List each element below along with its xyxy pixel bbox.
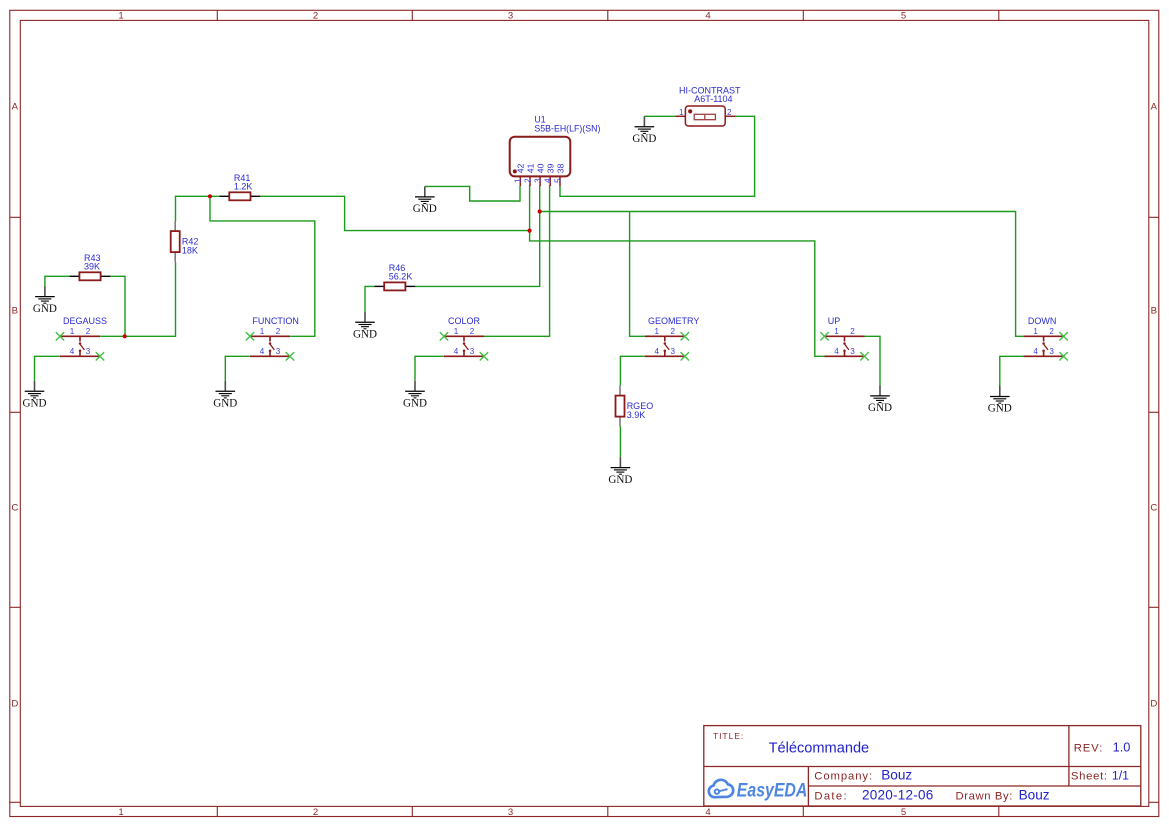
svg-text:1: 1 xyxy=(834,327,839,336)
svg-text:2: 2 xyxy=(276,327,281,336)
ground GND (U1 pin1) xyxy=(413,186,437,215)
svg-text:4: 4 xyxy=(1033,347,1038,356)
wire U1 pin2 to UP pin4 xyxy=(530,186,825,356)
ground GND (DEGAUSS) xyxy=(22,381,46,410)
svg-text:A: A xyxy=(1151,101,1158,112)
svg-text:GND: GND xyxy=(403,398,427,410)
junction U1 pin3 branch xyxy=(538,209,542,213)
svg-text:18K: 18K xyxy=(182,246,198,256)
svg-text:1: 1 xyxy=(260,327,265,336)
svg-text:EasyEDA: EasyEDA xyxy=(737,780,808,802)
svg-text:2: 2 xyxy=(313,11,318,22)
wire FUNCTION pin4 to GND xyxy=(225,356,250,381)
switch DOWN xyxy=(1024,332,1068,360)
svg-text:1: 1 xyxy=(454,327,459,336)
wire UP pin2 to GND xyxy=(864,336,880,385)
svg-text:Company:: Company: xyxy=(814,771,873,783)
svg-text:4: 4 xyxy=(260,347,265,356)
title block xyxy=(704,726,1141,806)
svg-text:2: 2 xyxy=(86,327,91,336)
svg-text:4: 4 xyxy=(834,347,839,356)
svg-text:1: 1 xyxy=(70,327,75,336)
wire branch to GEOMETRY pin1 xyxy=(630,212,645,337)
ground GND (HI-CONTRAST) xyxy=(632,116,656,145)
svg-text:2: 2 xyxy=(313,807,318,818)
resistor RGEO 3.9K xyxy=(616,386,625,427)
svg-text:GND: GND xyxy=(608,474,632,486)
svg-text:B: B xyxy=(12,305,18,316)
svg-text:Bouz: Bouz xyxy=(881,768,912,783)
svg-text:2: 2 xyxy=(470,327,475,336)
svg-text:UP: UP xyxy=(828,316,841,326)
junction node R41 left xyxy=(208,194,212,198)
ground GND (COLOR) xyxy=(403,381,427,410)
svg-text:GND: GND xyxy=(632,133,656,145)
wire U1 pin1 to GND xyxy=(425,186,520,201)
svg-text:39: 39 xyxy=(546,163,556,173)
svg-text:GND: GND xyxy=(868,402,892,414)
svg-text:3: 3 xyxy=(508,11,513,22)
svg-text:Drawn By:: Drawn By: xyxy=(956,791,1014,803)
ground GND (DOWN) xyxy=(988,386,1012,415)
U1 pin numbers 1-5 xyxy=(514,178,563,183)
svg-text:A6T-1104: A6T-1104 xyxy=(694,94,732,104)
svg-text:3: 3 xyxy=(508,807,513,818)
ground GND (UP) xyxy=(868,385,892,414)
svg-text:D: D xyxy=(1150,698,1157,709)
svg-text:5: 5 xyxy=(901,11,906,22)
wire DOWN pin4 to GND xyxy=(1000,356,1024,386)
switch COLOR xyxy=(440,332,488,360)
svg-text:COLOR: COLOR xyxy=(448,316,481,326)
ground GND (R46) xyxy=(353,312,377,341)
svg-text:4: 4 xyxy=(544,178,553,183)
svg-text:1: 1 xyxy=(1033,327,1038,336)
svg-text:2: 2 xyxy=(850,327,855,336)
svg-text:FUNCTION: FUNCTION xyxy=(252,316,299,326)
wire R41 right to U1 pin2 node xyxy=(260,196,530,230)
wire DEGAUSS pin4 to GND xyxy=(35,356,60,381)
svg-text:3: 3 xyxy=(470,347,475,356)
wire R43 right to DEGAUSS node xyxy=(110,276,125,336)
switch GEOMETRY xyxy=(645,332,689,360)
svg-text:42: 42 xyxy=(516,163,526,173)
svg-text:3: 3 xyxy=(1049,347,1054,356)
wire GEOMETRY pin4 to RGEO xyxy=(620,356,644,385)
svg-text:4: 4 xyxy=(70,347,75,356)
svg-text:5: 5 xyxy=(901,807,906,818)
switch U? HI-CONTRAST A6T-1104 xyxy=(675,106,736,126)
svg-text:REV:: REV: xyxy=(1074,742,1104,754)
svg-text:5: 5 xyxy=(553,178,562,183)
wire DEGAUSS pin2 to R42 bottom xyxy=(100,262,175,336)
svg-text:TITLE:: TITLE: xyxy=(713,731,744,741)
wire U1 pin4 to COLOR pin2 xyxy=(484,186,550,336)
svg-text:40: 40 xyxy=(536,163,546,173)
resistor R43 39K xyxy=(70,272,111,280)
EasyEDA logo xyxy=(709,780,733,797)
connector U1 S5B-EH(LF)(SN) xyxy=(510,137,571,186)
ground GND (FUNCTION) xyxy=(213,381,237,410)
svg-text:1: 1 xyxy=(679,108,684,117)
svg-text:GND: GND xyxy=(33,303,57,315)
svg-text:56.2K: 56.2K xyxy=(389,271,413,281)
svg-text:GND: GND xyxy=(22,398,46,410)
wire R46 left to GND xyxy=(365,286,375,311)
ground GND (RGEO) xyxy=(608,457,632,486)
svg-text:1: 1 xyxy=(514,178,523,183)
svg-text:C: C xyxy=(1150,502,1157,513)
svg-text:S5B-EH(LF)(SN): S5B-EH(LF)(SN) xyxy=(534,124,600,134)
svg-text:Date:: Date: xyxy=(814,791,848,803)
svg-text:Bouz: Bouz xyxy=(1019,788,1050,803)
svg-text:3: 3 xyxy=(850,347,855,356)
wire U1 pin5 to HI-CONTRAST pin2 xyxy=(560,116,755,196)
svg-text:2: 2 xyxy=(523,178,532,183)
svg-text:3: 3 xyxy=(671,347,676,356)
svg-text:3: 3 xyxy=(276,347,281,356)
svg-text:GEOMETRY: GEOMETRY xyxy=(648,316,699,326)
svg-text:DEGAUSS: DEGAUSS xyxy=(63,316,107,326)
switch FUNCTION xyxy=(246,332,294,360)
svg-text:1/1: 1/1 xyxy=(1112,769,1129,783)
svg-text:41: 41 xyxy=(525,163,535,173)
wire HI-CONTRAST pin1 to GND xyxy=(644,115,675,117)
svg-text:4: 4 xyxy=(705,807,711,818)
svg-text:3.9K: 3.9K xyxy=(627,410,646,420)
junction U1 pin2 / R41 right xyxy=(528,229,532,233)
wire GND to R43 left xyxy=(45,276,70,286)
switch DEGAUSS xyxy=(56,332,104,360)
resistor R42 18K xyxy=(171,221,180,262)
svg-text:GND: GND xyxy=(413,203,437,215)
wire R42 top to R41 left xyxy=(176,196,221,221)
svg-text:C: C xyxy=(11,502,18,513)
svg-text:2: 2 xyxy=(727,108,732,117)
resistor R41 1.2K xyxy=(220,192,261,200)
svg-text:1: 1 xyxy=(118,11,123,22)
svg-text:2020-12-06: 2020-12-06 xyxy=(862,788,934,803)
svg-text:38: 38 xyxy=(555,163,565,173)
svg-text:3: 3 xyxy=(86,347,91,356)
ground GND (R43) xyxy=(33,286,57,315)
switch UP xyxy=(820,332,868,360)
svg-text:3: 3 xyxy=(534,178,543,183)
svg-text:D: D xyxy=(11,698,18,709)
junction R43 / DEGAUSS pin2 xyxy=(123,334,127,338)
svg-text:1.0: 1.0 xyxy=(1113,739,1131,754)
svg-text:1.2K: 1.2K xyxy=(234,181,253,191)
svg-text:DOWN: DOWN xyxy=(1028,316,1057,326)
svg-text:4: 4 xyxy=(655,347,660,356)
svg-text:A: A xyxy=(12,101,19,112)
svg-text:1: 1 xyxy=(655,327,660,336)
svg-text:4: 4 xyxy=(454,347,459,356)
wire U1 pin3 to R46 right xyxy=(415,186,540,287)
resistor R46 56.2K xyxy=(375,282,416,290)
svg-text:4: 4 xyxy=(705,11,711,22)
svg-text:GND: GND xyxy=(353,328,377,340)
svg-text:1: 1 xyxy=(118,807,123,818)
svg-text:39K: 39K xyxy=(84,261,100,271)
wire COLOR pin4 to GND xyxy=(415,356,444,381)
svg-text:Télécommande: Télécommande xyxy=(769,740,870,756)
wire RGEO bottom to GND xyxy=(619,426,621,457)
svg-text:GND: GND xyxy=(988,403,1012,415)
svg-text:2: 2 xyxy=(1049,327,1054,336)
svg-text:B: B xyxy=(1151,305,1157,316)
U1 pad net labels 42-38 xyxy=(516,163,566,173)
wire R41-left node to FUNCTION pin2 xyxy=(210,196,315,336)
wire pin3 node to DOWN pin1 xyxy=(540,212,1024,337)
svg-text:2: 2 xyxy=(671,327,676,336)
svg-text:GND: GND xyxy=(213,398,237,410)
svg-text:Sheet:: Sheet: xyxy=(1071,771,1108,783)
